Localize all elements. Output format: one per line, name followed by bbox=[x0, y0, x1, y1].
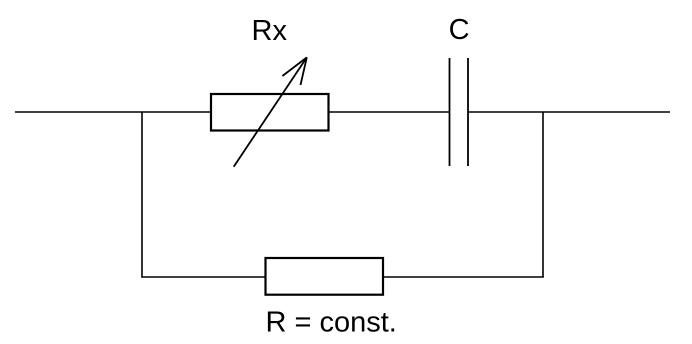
wire: bottom right segment bbox=[383, 276, 544, 278]
wire: top left segment bbox=[15, 111, 211, 113]
wire: top right segment (capacitor to right end) bbox=[468, 111, 670, 113]
resistor Rx (variable) bbox=[211, 57, 329, 166]
resistor R (constant) bbox=[266, 258, 384, 295]
wire: bottom left segment bbox=[141, 276, 265, 278]
wire: right vertical branch bbox=[542, 112, 544, 277]
svg-text:R = const.: R = const. bbox=[266, 307, 397, 339]
capacitor C bbox=[450, 58, 469, 166]
svg-text:Rx: Rx bbox=[252, 15, 288, 47]
wire: top middle segment (Rx box to capacitor) bbox=[329, 111, 450, 113]
wire: left vertical branch bbox=[141, 112, 143, 277]
svg-text:C: C bbox=[449, 14, 470, 46]
